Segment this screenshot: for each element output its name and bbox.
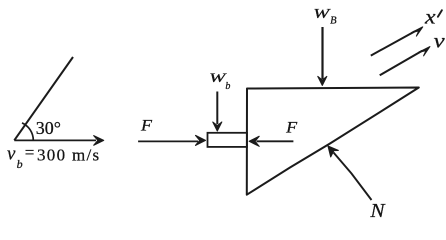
svg-text:30°: 30° — [36, 118, 61, 138]
svg-text:B: B — [330, 16, 337, 27]
svg-text:F: F — [140, 117, 153, 134]
svg-text:b: b — [225, 81, 230, 92]
svg-text:v: v — [434, 30, 445, 52]
svg-text:=: = — [25, 143, 35, 162]
svg-text:v: v — [7, 143, 16, 164]
svg-text:300 m/s: 300 m/s — [37, 145, 100, 164]
svg-text:W: W — [313, 7, 331, 22]
svg-text:N: N — [369, 200, 386, 222]
svg-text:F: F — [285, 119, 298, 136]
svg-text:x: x — [424, 6, 436, 28]
svg-text:b: b — [17, 157, 23, 171]
